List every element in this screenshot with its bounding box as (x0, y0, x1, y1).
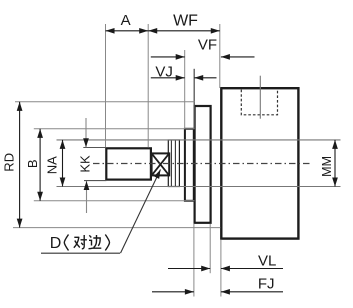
dimension WF (148, 13, 220, 31)
svg-text:NA: NA (45, 156, 60, 174)
leader line to key box (121, 170, 161, 254)
dimension VL (outside arrows) (168, 252, 283, 269)
dimension A (106, 12, 149, 31)
svg-text:MM: MM (320, 156, 334, 177)
paren open (fullwidth) (64, 235, 68, 251)
dimension RD (1, 102, 19, 228)
svg-text:VF: VF (198, 37, 217, 54)
dimension FJ (outside arrows) (152, 276, 283, 293)
svg-text:A: A (121, 12, 131, 29)
extension line RD bottom (13, 227, 220, 229)
svg-text:KK: KK (78, 155, 93, 173)
label D (across flats) with leader (41, 170, 161, 254)
dimension VJ (outside arrows) (151, 63, 217, 80)
extension line A/WF shared (147, 24, 149, 148)
svg-text:D: D (50, 235, 62, 252)
extension line KK bottom (shaft bottom, to left) (84, 180, 106, 182)
underline (41, 252, 120, 254)
extension line RD top (15, 101, 195, 103)
extension line VF/VJ (plate front face) (184, 50, 186, 129)
extension line bottom (plate rear face) (193, 224, 195, 297)
extension line KK top (shaft top, to left) (83, 147, 106, 149)
body main block (221, 88, 298, 238)
wire horizontal centerline (93, 163, 312, 165)
extension line WF right (body face) (219, 24, 221, 88)
paren close (fullwidth) (105, 235, 109, 251)
flange mid plate (195, 106, 211, 223)
collar / seal housing (168, 140, 179, 187)
collar inner line 1 (170, 140, 172, 187)
dimension VF (outside arrows) (151, 37, 255, 57)
shaft key box (square with X) (152, 153, 170, 175)
svg-text:FJ: FJ (258, 276, 275, 293)
dimension KK lower outside arrow (86, 181, 88, 213)
dimension MM (320, 140, 335, 187)
node pilot diameter line bottom (NA/MM reference) (57, 186, 341, 188)
node pilot diameter line top (NA/MM reference) (57, 139, 341, 141)
svg-text:VL: VL (258, 252, 276, 269)
shaft (106, 148, 151, 179)
svg-text:VJ: VJ (155, 63, 173, 80)
extension line bottom (body front face) (220, 240, 222, 297)
hole hidden outline (dashed) (241, 90, 277, 115)
extension line bottom (mid plate mounting face) (209, 224, 211, 273)
glyph dui (left: you) (74, 235, 87, 249)
svg-text:WF: WF (173, 13, 198, 30)
svg-text:B: B (25, 159, 40, 168)
extension line B top (34, 128, 195, 130)
glyph bian (walk radical + li) (89, 235, 102, 249)
dimension KK upper outside arrow (85, 118, 87, 147)
dimension NA (45, 140, 63, 187)
wire hole centerline vertical (259, 76, 261, 119)
dimension B (25, 129, 40, 201)
extension line B bottom (34, 200, 195, 202)
extension line A left (105, 24, 107, 148)
extension line VJ right (plate rear face) (193, 69, 195, 129)
collar inner line 2 (174, 140, 176, 187)
front plate (185, 129, 194, 201)
svg-text:RD: RD (1, 153, 16, 172)
